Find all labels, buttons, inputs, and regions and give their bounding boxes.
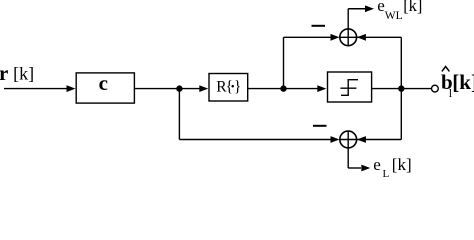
svg-text:}: }: [234, 78, 241, 95]
svg-text:e: e: [377, 0, 385, 15]
svg-text:L: L: [383, 168, 390, 180]
svg-text:WL: WL: [385, 10, 403, 22]
svg-text:c: c: [99, 71, 108, 95]
svg-text:[k]: [k]: [10, 64, 35, 84]
svg-text:e: e: [373, 155, 381, 174]
svg-text:[k]: [k]: [452, 70, 474, 94]
svg-text:r: r: [0, 61, 8, 85]
svg-text:[k]: [k]: [392, 155, 412, 174]
svg-text:[k]: [k]: [403, 0, 422, 15]
